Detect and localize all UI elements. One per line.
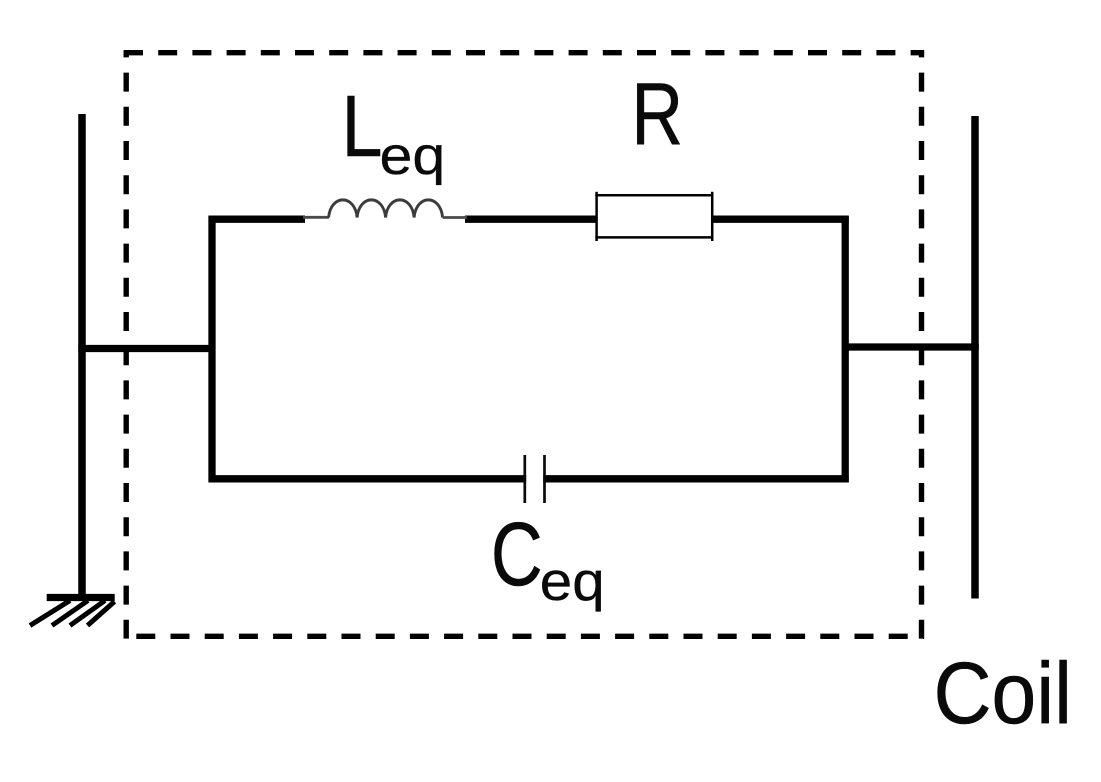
label Leq (342, 79, 446, 187)
wire: left terminal vertical line (78, 114, 86, 600)
gap in bottom branch for capacitor (526, 472, 543, 486)
ground (30, 598, 115, 626)
capacitor Ceq plates (525, 455, 545, 503)
label Ceq (491, 504, 605, 611)
dashed equivalent-circuit boundary box (124, 50, 924, 638)
svg-text:eq: eq (540, 550, 605, 611)
inductor Leq (303, 200, 467, 218)
svg-text:R: R (631, 65, 683, 164)
svg-text:L: L (342, 79, 383, 176)
wire: left horizontal lead into loop (78, 345, 215, 352)
resistor R (box) (595, 192, 713, 241)
svg-text:eq: eq (380, 126, 446, 186)
svg-text:C: C (491, 504, 543, 605)
wire: right terminal vertical line (coil) (971, 116, 979, 599)
wire: right horizontal lead out of loop (842, 343, 979, 350)
wire: inner loop rectangle (top/bottom branches and sides) (209, 216, 849, 483)
svg-text:Coil: Coil (934, 644, 1072, 742)
gap in top branch for inductor (305, 213, 465, 226)
